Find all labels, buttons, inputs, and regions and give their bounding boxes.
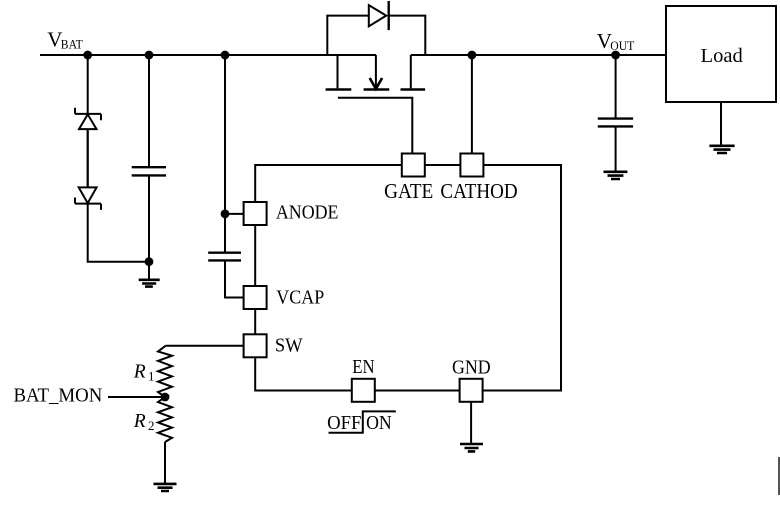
svg-text:OFF: OFF — [327, 412, 361, 434]
svg-text:GND: GND — [452, 358, 491, 379]
svg-text:OUT: OUT — [610, 38, 634, 53]
svg-text:ON: ON — [366, 412, 392, 434]
svg-text:BAT_MON: BAT_MON — [14, 386, 103, 407]
svg-text:Load: Load — [701, 46, 744, 67]
svg-text:1: 1 — [148, 369, 155, 384]
svg-text:BAT: BAT — [61, 37, 83, 52]
svg-text:GATE: GATE — [384, 179, 433, 203]
svg-text:VCAP: VCAP — [276, 288, 324, 309]
svg-text:CATHOD: CATHOD — [440, 179, 517, 203]
svg-text:EN: EN — [352, 357, 374, 378]
svg-text:R: R — [133, 362, 146, 383]
svg-text:ANODE: ANODE — [276, 203, 339, 224]
svg-text:R: R — [133, 411, 146, 432]
svg-text:SW: SW — [275, 336, 303, 357]
svg-text:2: 2 — [148, 418, 155, 433]
